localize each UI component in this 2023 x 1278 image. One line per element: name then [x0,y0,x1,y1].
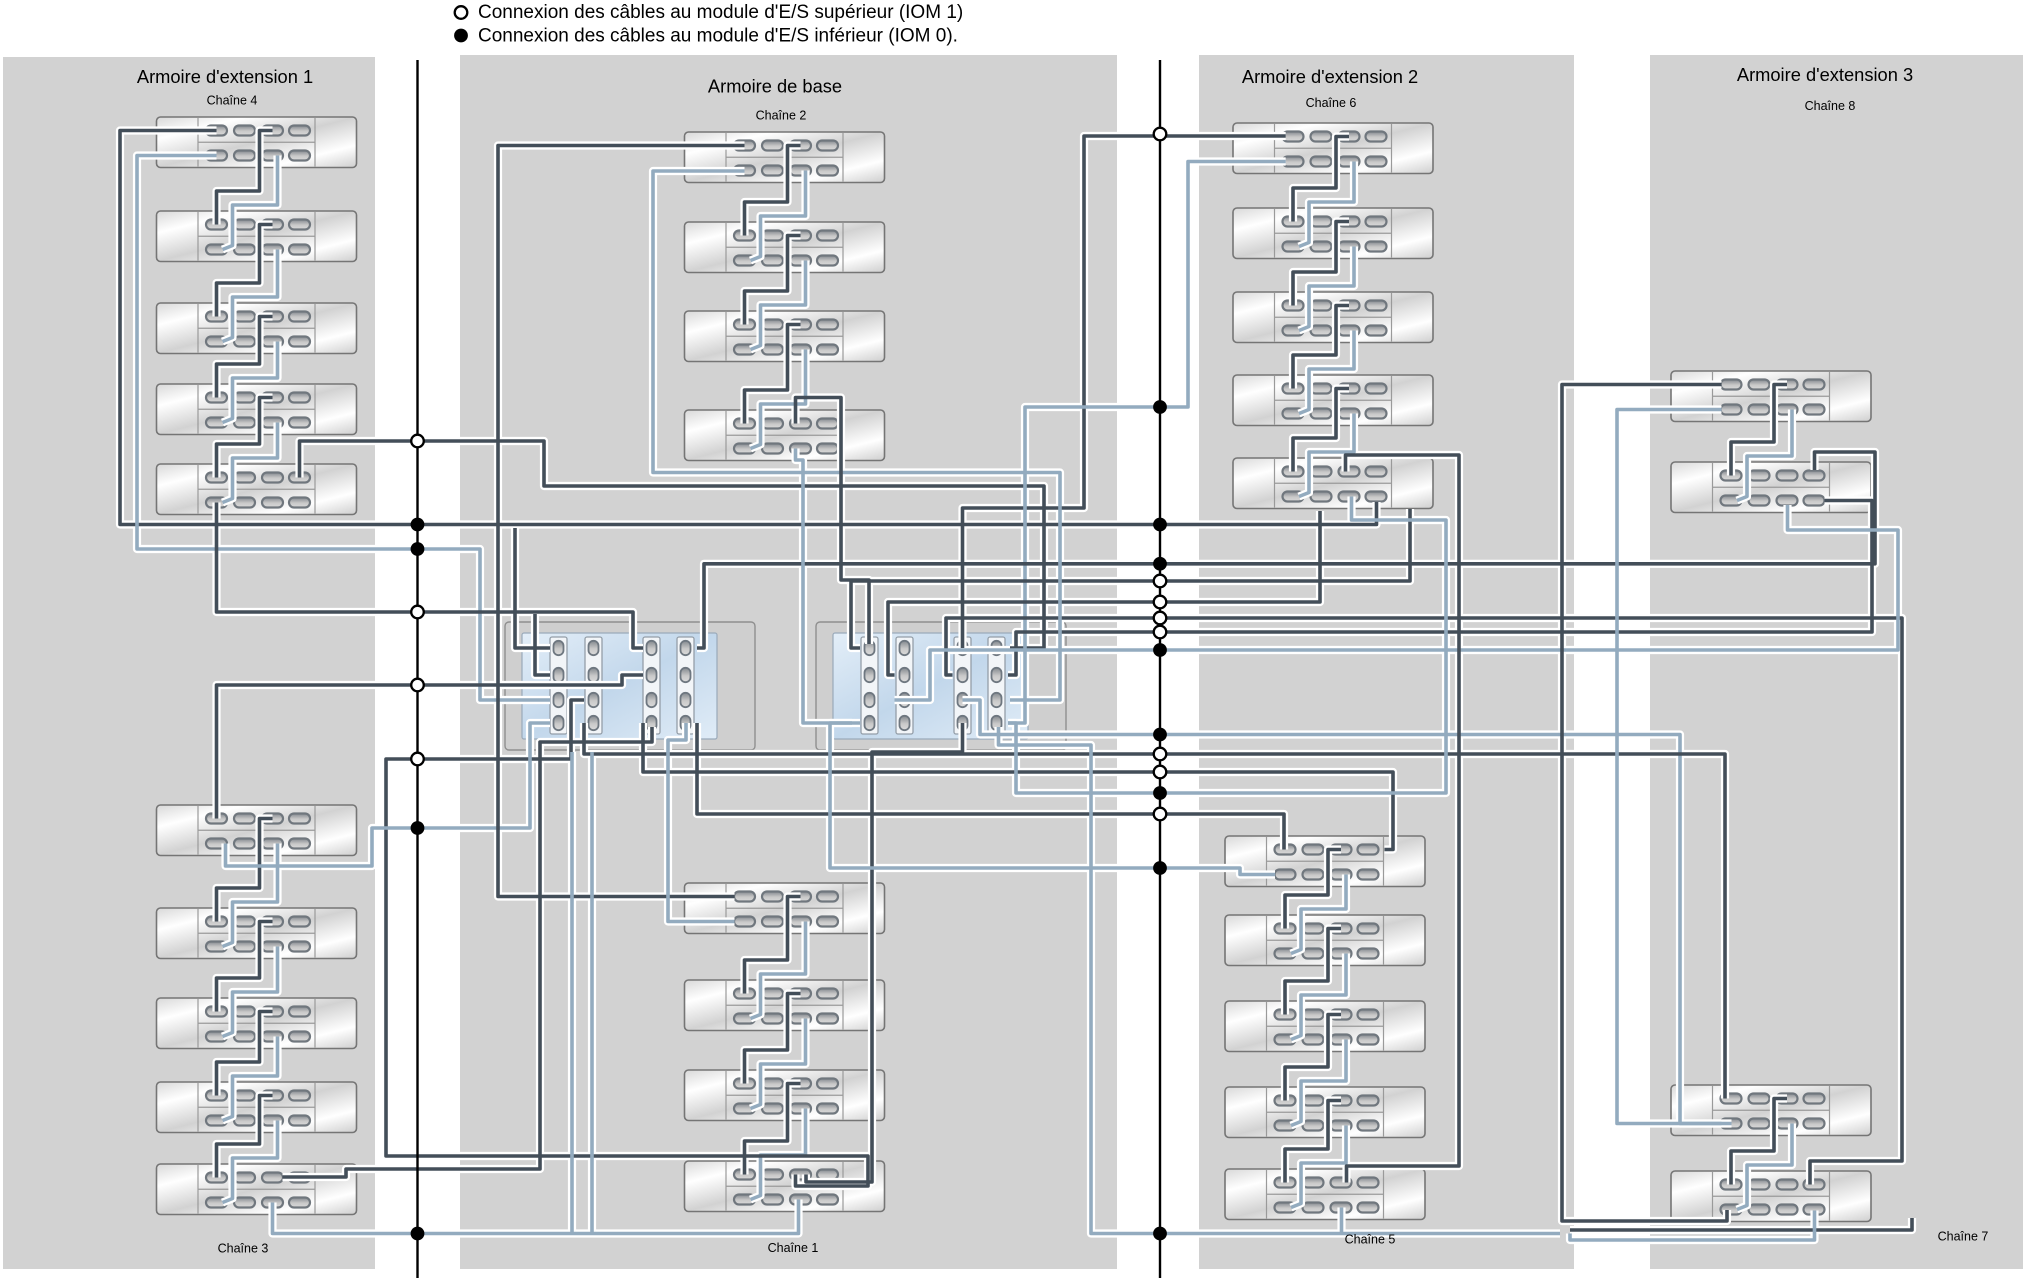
svg-text:Armoire d'extension 3: Armoire d'extension 3 [1737,64,1913,85]
svg-text:Chaîne 6: Chaîne 6 [1306,96,1357,110]
svg-text:Armoire d'extension 2: Armoire d'extension 2 [1242,66,1418,87]
svg-text:Chaîne 1: Chaîne 1 [768,1241,819,1255]
svg-text:Connexion des câbles au module: Connexion des câbles au module d'E/S inf… [478,26,958,47]
svg-text:Armoire de base: Armoire de base [708,76,842,97]
svg-text:Chaîne 2: Chaîne 2 [756,109,807,123]
svg-text:Chaîne 5: Chaîne 5 [1345,1233,1396,1247]
svg-text:Chaîne 7: Chaîne 7 [1938,1230,1989,1244]
svg-text:Chaîne 4: Chaîne 4 [207,94,258,108]
svg-text:Armoire d'extension 1: Armoire d'extension 1 [137,66,313,87]
svg-text:Connexion des câbles au module: Connexion des câbles au module d'E/S sup… [478,2,963,23]
svg-text:Chaîne 3: Chaîne 3 [218,1242,269,1256]
svg-text:Chaîne 8: Chaîne 8 [1805,99,1856,113]
